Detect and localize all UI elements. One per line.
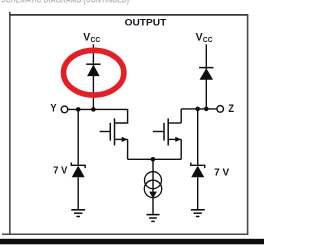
svg-text:CC: CC — [91, 37, 101, 44]
svg-text:OUTPUT: OUTPUT — [125, 18, 167, 28]
svg-text:7 V: 7 V — [214, 167, 229, 178]
svg-text:Z: Z — [228, 103, 234, 115]
svg-text:CC: CC — [203, 37, 213, 44]
svg-text:Y: Y — [50, 102, 57, 114]
svg-text:7 V: 7 V — [53, 165, 67, 176]
svg-text:SCHEMATIC DIAGRAMS (CONTINUED): SCHEMATIC DIAGRAMS (CONTINUED) — [1, 0, 129, 5]
